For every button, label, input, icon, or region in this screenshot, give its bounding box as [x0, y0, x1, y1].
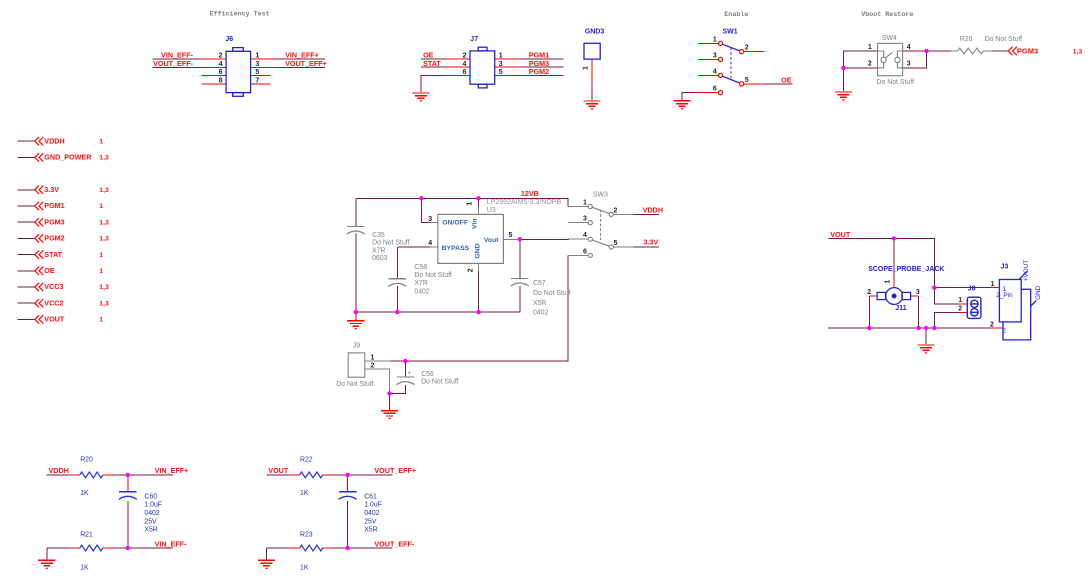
svg-text:J8: J8 [968, 286, 976, 293]
svg-text:1: 1 [990, 281, 994, 288]
svg-text:PGM3: PGM3 [44, 217, 64, 226]
svg-text:8: 8 [219, 77, 223, 84]
svg-text:6: 6 [219, 69, 223, 76]
svg-text:SW3: SW3 [593, 192, 608, 199]
svg-text:2: 2 [468, 268, 475, 272]
svg-text:SW1: SW1 [723, 29, 738, 36]
svg-text:C58: C58 [414, 264, 427, 271]
svg-text:7: 7 [255, 77, 259, 84]
svg-text:2: 2 [614, 207, 618, 214]
svg-text:2: 2 [868, 61, 872, 68]
svg-text:6: 6 [462, 69, 466, 76]
svg-text:X5R: X5R [144, 527, 157, 534]
svg-text:VDDH: VDDH [44, 136, 64, 145]
svg-text:OE: OE [781, 76, 792, 85]
svg-text:1: 1 [467, 202, 474, 206]
svg-text:1K: 1K [80, 564, 89, 571]
svg-text:3.3V: 3.3V [643, 238, 658, 247]
svg-text:Efficiency Test: Efficiency Test [210, 10, 270, 18]
svg-text:3: 3 [907, 61, 911, 68]
svg-text:1,3: 1,3 [99, 300, 109, 307]
svg-text:Vboot Restore: Vboot Restore [861, 11, 913, 19]
svg-text:1,3: 1,3 [1073, 49, 1083, 56]
svg-text:1: 1 [99, 203, 103, 210]
svg-text:2: 2 [462, 53, 466, 60]
svg-text:2: 2 [219, 53, 223, 60]
svg-text:VIN_EFF+: VIN_EFF+ [155, 466, 189, 475]
svg-text:5: 5 [614, 240, 618, 247]
svg-text:1K: 1K [300, 490, 309, 497]
svg-text:3.3V: 3.3V [44, 185, 59, 194]
svg-text:C60: C60 [144, 493, 157, 500]
svg-text:LP2992AIM5-3.3/NOPB: LP2992AIM5-3.3/NOPB [487, 199, 562, 206]
svg-text:1,3: 1,3 [99, 155, 109, 162]
svg-text:6: 6 [583, 248, 587, 255]
svg-text:3: 3 [713, 52, 717, 59]
svg-text:3: 3 [255, 61, 259, 68]
svg-text:1: 1 [868, 44, 872, 51]
svg-text:J3: J3 [1001, 263, 1009, 270]
svg-text:2: 2 [370, 363, 374, 370]
svg-text:+: + [407, 370, 411, 377]
svg-text:3: 3 [916, 289, 920, 296]
svg-text:VOUT_EFF+: VOUT_EFF+ [285, 59, 327, 68]
svg-text:1,3: 1,3 [99, 187, 109, 194]
svg-text:Enable: Enable [724, 11, 748, 19]
svg-text:PGM2: PGM2 [529, 67, 549, 76]
svg-text:J9: J9 [353, 342, 360, 349]
svg-text:Do Not Stuff: Do Not Stuff [372, 240, 409, 247]
svg-text:25V: 25V [364, 518, 377, 525]
svg-text:VDDH: VDDH [49, 466, 69, 475]
svg-text:0402: 0402 [364, 510, 379, 517]
svg-text:1: 1 [713, 36, 717, 43]
svg-text:VIN_EFF-: VIN_EFF- [155, 539, 188, 548]
svg-text:X5R: X5R [364, 527, 377, 534]
svg-text:C57: C57 [533, 280, 546, 287]
svg-text:VOUT_EFF+: VOUT_EFF+ [374, 466, 416, 475]
svg-text:1: 1 [99, 317, 103, 324]
svg-text:VOUT: VOUT [44, 315, 65, 324]
svg-text:STAT: STAT [44, 250, 62, 259]
svg-text:2_Pin: 2_Pin [996, 292, 1013, 299]
svg-text:4: 4 [428, 240, 432, 247]
svg-text:Do Not Stuff: Do Not Stuff [985, 36, 1022, 43]
svg-text:J6: J6 [225, 36, 233, 43]
svg-text:0402: 0402 [414, 288, 429, 295]
svg-text:Do Not Stuff: Do Not Stuff [336, 381, 373, 388]
svg-text:1,3: 1,3 [99, 284, 109, 291]
svg-text:SCOPE_PROBE_JACK: SCOPE_PROBE_JACK [868, 266, 944, 273]
svg-text:STAT: STAT [423, 59, 441, 68]
svg-text:OE: OE [44, 266, 55, 275]
svg-text:+VOUT: +VOUT [1023, 260, 1030, 282]
svg-text:1K: 1K [80, 490, 89, 497]
svg-text:1: 1 [255, 53, 259, 60]
svg-text:R20: R20 [80, 457, 93, 464]
svg-text:1: 1 [958, 297, 962, 304]
svg-text:5: 5 [745, 77, 749, 84]
svg-text:C35: C35 [372, 232, 385, 239]
svg-text:2: 2 [958, 306, 962, 313]
svg-text:2: 2 [1002, 328, 1006, 335]
svg-text:1: 1 [583, 66, 590, 70]
svg-text:PGM2: PGM2 [44, 234, 64, 243]
svg-text:GND: GND [1035, 285, 1042, 300]
svg-text:Do Not Stuff: Do Not Stuff [877, 79, 914, 86]
svg-text:PGM3: PGM3 [1017, 47, 1038, 56]
svg-text:0603: 0603 [372, 255, 387, 262]
svg-text:GND: GND [474, 243, 481, 258]
svg-text:2: 2 [867, 289, 871, 296]
svg-text:5: 5 [499, 69, 503, 76]
svg-text:R21: R21 [80, 531, 93, 538]
svg-text:VCC3: VCC3 [44, 282, 63, 291]
svg-text:1: 1 [370, 354, 374, 361]
svg-text:VOUT: VOUT [268, 466, 289, 475]
svg-text:1: 1 [884, 280, 891, 284]
svg-text:3: 3 [428, 216, 432, 223]
svg-text:Vout: Vout [484, 237, 499, 244]
svg-text:4: 4 [219, 61, 223, 68]
svg-text:SW4: SW4 [882, 35, 897, 42]
svg-text:1.0uF: 1.0uF [364, 502, 382, 509]
svg-text:1: 1 [99, 252, 103, 259]
svg-text:1: 1 [99, 268, 103, 275]
svg-text:4: 4 [583, 232, 587, 239]
svg-text:J11: J11 [895, 305, 906, 312]
svg-text:C56: C56 [421, 371, 434, 378]
svg-text:4: 4 [907, 44, 911, 51]
svg-text:1: 1 [499, 53, 503, 60]
svg-text:VOUT_EFF-: VOUT_EFF- [153, 59, 194, 68]
svg-text:VDDH: VDDH [643, 205, 663, 214]
svg-text:Do Not Stuff: Do Not Stuff [421, 378, 458, 385]
svg-text:1,3: 1,3 [99, 219, 109, 226]
svg-text:Vin: Vin [472, 218, 479, 228]
svg-text:0402: 0402 [144, 510, 159, 517]
svg-text:1.0uF: 1.0uF [144, 502, 162, 509]
svg-text:2: 2 [745, 45, 749, 52]
svg-text:Do Not Stuff: Do Not Stuff [414, 272, 451, 279]
svg-text:J7: J7 [470, 36, 478, 43]
svg-text:5: 5 [255, 69, 259, 76]
svg-text:GND_POWER: GND_POWER [44, 153, 92, 162]
svg-text:1: 1 [583, 200, 587, 207]
svg-text:ON/OFF: ON/OFF [442, 220, 468, 227]
svg-text:C61: C61 [364, 493, 377, 500]
svg-text:4: 4 [462, 61, 466, 68]
svg-text:VCC2: VCC2 [44, 298, 63, 307]
svg-text:X7R: X7R [414, 280, 427, 287]
svg-text:1,3: 1,3 [99, 236, 109, 243]
svg-text:BYPASS: BYPASS [442, 245, 470, 252]
svg-text:PGM1: PGM1 [44, 201, 64, 210]
svg-text:2: 2 [990, 321, 994, 328]
svg-text:R26: R26 [960, 36, 973, 43]
svg-text:R23: R23 [300, 531, 313, 538]
svg-text:R22: R22 [300, 457, 313, 464]
svg-text:VOUT_EFF-: VOUT_EFF- [374, 539, 415, 548]
svg-text:X5R: X5R [533, 300, 546, 307]
svg-text:Do Not Stuff: Do Not Stuff [533, 290, 570, 297]
svg-text:X7R: X7R [372, 247, 385, 254]
svg-text:25V: 25V [144, 518, 157, 525]
svg-text:1K: 1K [300, 564, 309, 571]
svg-text:VOUT: VOUT [830, 230, 851, 239]
svg-text:3: 3 [499, 61, 503, 68]
svg-text:U3: U3 [487, 207, 496, 214]
svg-text:3: 3 [583, 216, 587, 223]
svg-text:0402: 0402 [533, 310, 548, 317]
svg-text:4: 4 [713, 68, 717, 75]
svg-text:GND3: GND3 [585, 29, 605, 36]
svg-text:12VB: 12VB [521, 189, 539, 198]
svg-text:5: 5 [508, 232, 512, 239]
svg-text:6: 6 [713, 86, 717, 93]
svg-text:1: 1 [99, 138, 103, 145]
